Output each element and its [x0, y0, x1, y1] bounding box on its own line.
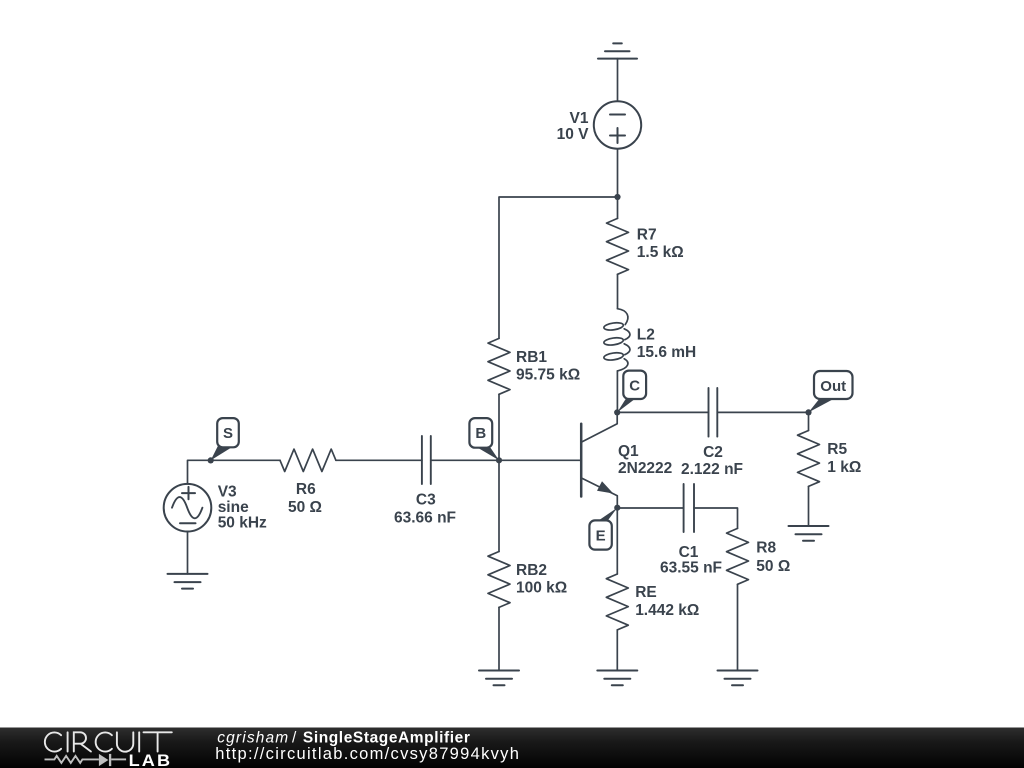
- node Out junction: [805, 409, 811, 415]
- svg-text:cgrisham: cgrisham: [217, 730, 288, 747]
- ground (top, above V1): [598, 43, 637, 58]
- wire V1 to junction: [617, 149, 619, 197]
- svg-text:R6: R6: [296, 481, 316, 498]
- node S junction: [208, 457, 214, 463]
- wire R5 to ground: [808, 486, 810, 526]
- resistor RB1: [488, 338, 510, 394]
- svg-text:15.6 mH: 15.6 mH: [637, 344, 696, 361]
- label C3 63.66 nF: [394, 491, 456, 526]
- svg-text:RE: RE: [635, 584, 657, 601]
- svg-text:63.55 nF: 63.55 nF: [660, 559, 722, 576]
- transistor Q1 base bar: [580, 424, 583, 497]
- wire node E to RE: [616, 508, 618, 574]
- V3 sine wave: [172, 497, 202, 518]
- resistor R6: [280, 449, 336, 471]
- svg-text:V1: V1: [570, 110, 589, 127]
- voltage source V3 (sine): [164, 484, 212, 532]
- svg-text:2.122 nF: 2.122 nF: [681, 461, 743, 478]
- logo resistor-diode squiggle: [45, 754, 127, 766]
- svg-text:L2: L2: [637, 327, 655, 344]
- footer title cgrisham / SingleStageAmplifier: [217, 730, 470, 747]
- svg-text:Q1: Q1: [618, 443, 639, 460]
- logo CIRCUIT letters: [45, 732, 172, 751]
- wire R8 to ground: [737, 584, 739, 670]
- node E junction: [614, 505, 620, 511]
- wire RE to ground: [616, 630, 618, 671]
- svg-text:1.442 kΩ: 1.442 kΩ: [635, 602, 699, 619]
- wire V3 to R6: [188, 460, 281, 484]
- footer bar: [0, 728, 1024, 768]
- resistor RE: [606, 574, 628, 630]
- svg-text:S: S: [223, 425, 233, 442]
- label V3 sine 50 kHz: [218, 484, 267, 532]
- resistor RB2: [488, 552, 510, 608]
- node B junction: [496, 457, 502, 463]
- voltage source V1: [594, 101, 641, 148]
- svg-text:1 kΩ: 1 kΩ: [827, 459, 861, 476]
- wire RB2 to ground: [498, 607, 500, 670]
- node C callout: [617, 371, 646, 413]
- ground (below R5): [789, 526, 829, 541]
- svg-text:50 Ω: 50 Ω: [288, 499, 322, 516]
- svg-text:LAB: LAB: [129, 751, 173, 768]
- svg-text:C2: C2: [703, 444, 723, 461]
- svg-text:SingleStageAmplifier: SingleStageAmplifier: [303, 730, 470, 747]
- label Q1 2N2222: [618, 443, 672, 477]
- wire C1 to R8: [694, 508, 738, 528]
- svg-text:R5: R5: [827, 441, 847, 458]
- svg-text:1.5 kΩ: 1.5 kΩ: [637, 244, 684, 261]
- label L2 15.6 mH: [637, 327, 696, 362]
- wire node C to C2: [617, 411, 708, 413]
- ground (below RB2): [479, 671, 519, 686]
- label R8 50 Ohm: [756, 539, 790, 575]
- label R6 50 Ohm: [288, 481, 322, 516]
- wire L2 to node C junction: [616, 371, 618, 413]
- ground (below V3): [168, 574, 208, 589]
- svg-text:RB1: RB1: [516, 349, 547, 366]
- resistor R5: [798, 431, 820, 487]
- wire V3 to ground: [187, 532, 189, 574]
- svg-text:10 V: 10 V: [557, 126, 590, 143]
- capacitor C3: [422, 436, 431, 484]
- node S callout: [211, 418, 239, 460]
- svg-text:95.75 kΩ: 95.75 kΩ: [516, 366, 580, 383]
- resistor R8: [727, 528, 749, 584]
- svg-text:100 kΩ: 100 kΩ: [516, 579, 567, 596]
- node Out callout: [809, 371, 853, 412]
- wire R6 to C3: [336, 459, 422, 461]
- svg-text:Out: Out: [820, 378, 846, 395]
- resistor R7: [607, 218, 629, 274]
- label R7 1.5 kOhm: [637, 227, 684, 262]
- svg-text:http://circuitlab.com/cvsy8799: http://circuitlab.com/cvsy87994kvyh: [215, 745, 519, 763]
- wire node B to RB2: [498, 460, 500, 551]
- svg-text:R8: R8: [756, 539, 776, 556]
- label R5 1 kOhm: [827, 441, 861, 476]
- svg-text:RB2: RB2: [516, 562, 547, 579]
- capacitor C1: [684, 484, 694, 532]
- svg-text:R7: R7: [637, 227, 657, 244]
- junction at V1 bottom: [614, 194, 620, 200]
- wire junction to left branch: [499, 197, 618, 338]
- label RE 1.442 kOhm: [635, 584, 699, 619]
- wire node E to C1: [617, 507, 683, 509]
- wire base (C3 to Q1 base through node B): [431, 459, 581, 461]
- ground (below RE): [597, 671, 637, 686]
- transistor Q1 emitter: [581, 478, 617, 508]
- wire RB1 to node B: [498, 394, 500, 460]
- svg-text:50 Ω: 50 Ω: [756, 558, 790, 575]
- svg-text:sine: sine: [218, 499, 249, 516]
- node B callout: [469, 418, 499, 460]
- label C2 2.122 nF: [681, 444, 743, 478]
- wire junction to R7: [617, 197, 619, 218]
- label V1 10 V: [557, 110, 590, 143]
- transistor Q1 emitter arrow: [597, 481, 613, 493]
- ground (below R8): [718, 671, 758, 686]
- inductor L2: [603, 309, 630, 371]
- capacitor C2: [709, 388, 718, 437]
- wire R7 to L2: [617, 274, 619, 308]
- wire top ground to V1: [617, 59, 619, 102]
- svg-text:2N2222: 2N2222: [618, 460, 672, 477]
- svg-text:B: B: [475, 425, 486, 442]
- transistor Q1 collector wire: [581, 412, 617, 442]
- label RB1 95.75 kOhm: [516, 349, 580, 384]
- label C1 63.55 nF: [660, 544, 722, 576]
- label RB2 100 kOhm: [516, 562, 567, 596]
- svg-text:/: /: [292, 730, 297, 747]
- svg-text:E: E: [596, 528, 606, 545]
- svg-text:50 kHz: 50 kHz: [218, 515, 267, 532]
- node C junction: [614, 409, 620, 415]
- svg-text:C: C: [629, 378, 640, 395]
- wire Out to R5: [808, 412, 810, 430]
- node E callout: [589, 508, 617, 550]
- svg-text:V3: V3: [218, 484, 237, 501]
- svg-text:C3: C3: [416, 491, 436, 508]
- svg-text:63.66 nF: 63.66 nF: [394, 509, 456, 526]
- wire C2 to Out: [717, 411, 808, 413]
